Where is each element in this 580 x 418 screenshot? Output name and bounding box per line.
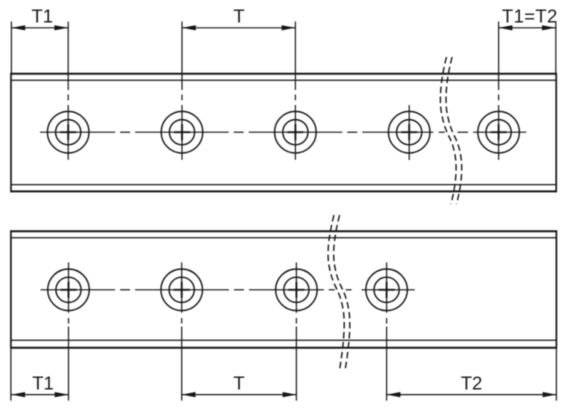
svg-text:T: T	[233, 373, 244, 394]
svg-text:T1: T1	[32, 373, 54, 394]
svg-text:T2: T2	[461, 373, 483, 394]
svg-text:T1=T2: T1=T2	[502, 5, 558, 26]
svg-text:T: T	[233, 5, 244, 26]
svg-text:T1: T1	[32, 5, 54, 26]
